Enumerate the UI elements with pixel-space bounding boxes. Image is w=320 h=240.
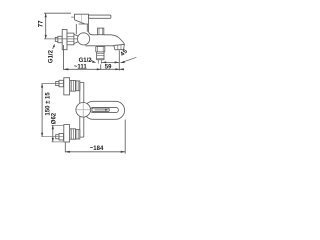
ext line fitting axis <box>100 64 102 69</box>
lever plan <box>90 107 118 112</box>
cartridge circle plan <box>76 103 91 118</box>
dim 150 <box>41 84 43 137</box>
nut <box>67 33 74 45</box>
svg-text:~184: ~184 <box>90 146 104 152</box>
svg-text:~111: ~111 <box>74 64 88 70</box>
dim row ~111 / 59 <box>64 68 125 70</box>
top union escutcheon <box>64 78 70 95</box>
ext 184 left <box>64 142 66 152</box>
ext line wall <box>63 45 65 70</box>
bottom union escutcheon <box>64 125 70 142</box>
spout capsule plan <box>84 101 125 119</box>
diverter knob <box>98 28 104 35</box>
ext 184 right <box>124 120 126 154</box>
aerator <box>114 44 125 49</box>
G1/2 bottom leader arrow <box>90 60 94 62</box>
ball body <box>78 33 90 45</box>
spout <box>85 24 124 46</box>
dim 77 line <box>45 13 47 39</box>
svg-text:59: 59 <box>105 64 112 70</box>
svg-text:150 ± 15: 150 ± 15 <box>45 92 51 116</box>
svg-text:G1/2: G1/2 <box>79 58 93 64</box>
hub / lever base <box>75 14 89 24</box>
top union threads <box>76 81 80 91</box>
svg-text:Ø62: Ø62 <box>52 112 58 124</box>
top union stub <box>56 82 59 86</box>
ext line spout tip <box>118 50 120 70</box>
G1/2 left leader arrow <box>53 46 54 49</box>
bottom union threads <box>76 130 80 139</box>
dim 184 <box>65 151 125 153</box>
body tube <box>80 81 84 83</box>
hub left tick <box>71 16 74 18</box>
bottom union stub <box>56 135 59 139</box>
dim 62 <box>52 125 54 142</box>
escutcheon <box>62 30 67 50</box>
top union nut <box>70 81 76 92</box>
hub centerline <box>80 14 82 23</box>
svg-text:77: 77 <box>39 20 45 27</box>
axis line <box>44 38 78 40</box>
wall stub <box>55 37 58 41</box>
svg-text:G1/2: G1/2 <box>48 49 54 63</box>
dim 45 small <box>101 61 119 63</box>
bottom union nut <box>70 129 76 139</box>
cone <box>74 34 79 43</box>
dim 45 leader <box>124 57 137 62</box>
neck <box>75 24 77 34</box>
shower hose fitting <box>96 47 105 52</box>
union axis overlays <box>42 83 64 85</box>
lever bar <box>89 15 111 18</box>
